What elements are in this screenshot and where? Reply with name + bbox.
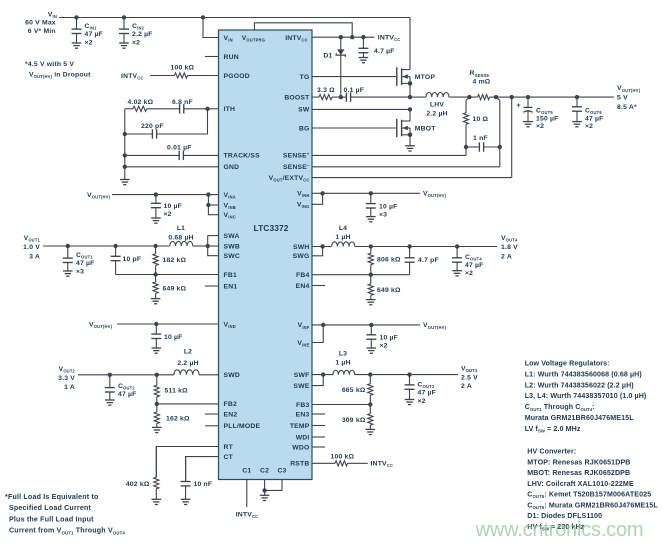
node junction VINA bracket — [206, 192, 210, 196]
resistor 100k RSTB — [335, 461, 348, 466]
svg-text:SWE: SWE — [293, 383, 309, 390]
label 649k right — [377, 287, 401, 294]
svg-text:Murata GRM21BR60J476ME15L: Murata GRM21BR60J476ME15L — [525, 414, 635, 422]
node junction loop — [350, 35, 354, 39]
svg-text:4.02 kΩ: 4.02 kΩ — [128, 99, 154, 106]
U1 left pin labels — [224, 35, 261, 461]
svg-text:FB3: FB3 — [296, 402, 309, 409]
label COUT3 — [418, 382, 437, 405]
resistor 511k — [154, 375, 159, 404]
note HV converter — [527, 448, 658, 532]
wire CT — [186, 457, 219, 482]
node junction voutext — [510, 95, 514, 99]
label 182k — [163, 257, 187, 264]
svg-text:47 µF: 47 µF — [418, 390, 437, 397]
capacitor 10nF — [181, 457, 191, 505]
svg-text:TRACK/SS: TRACK/SS — [224, 153, 261, 160]
label 100k — [171, 65, 195, 72]
label 4.7uF — [374, 48, 395, 55]
svg-text:3.3 Ω: 3.3 Ω — [317, 87, 335, 94]
label INTVCC at C1 — [236, 512, 259, 520]
resistor 402k — [152, 447, 162, 505]
wire 0.1uF to SW node — [351, 96, 410, 98]
node junction VIND cap — [154, 322, 158, 326]
wire SWE bracket — [312, 375, 323, 386]
label INTVCC right top — [378, 35, 401, 43]
svg-text:220 pF: 220 pF — [141, 123, 164, 130]
resistor 4.02k — [125, 106, 147, 111]
capacitor COUT3 — [405, 375, 415, 405]
svg-text:4 mΩ: 4 mΩ — [473, 78, 491, 85]
node junction COUT1 — [66, 244, 70, 248]
capacitor 10uF VIND — [151, 324, 161, 353]
wire R to PGOOD pin — [188, 75, 219, 77]
label 402k — [126, 481, 150, 488]
inductor L3 — [333, 370, 355, 374]
svg-text:0.1 µF: 0.1 µF — [344, 87, 365, 94]
svg-text:4.7 pF: 4.7 pF — [418, 257, 439, 264]
svg-text:CIN2: CIN2 — [132, 23, 145, 31]
wire EN2 stub — [205, 413, 219, 415]
node junction VINH bracket — [320, 191, 324, 195]
node VOUT3 label — [461, 366, 478, 391]
svg-text:10 pF: 10 pF — [123, 256, 142, 263]
svg-text:MBOT: Renesas RJK0652DPB: MBOT: Renesas RJK0652DPB — [527, 469, 630, 477]
node junction COUT2 — [108, 373, 112, 377]
svg-text:INTVCC: INTVCC — [378, 35, 401, 43]
svg-text:SWD: SWD — [224, 372, 240, 379]
wire VOUT3 rail — [355, 374, 458, 376]
node VOUTHV label at VINA — [87, 192, 111, 200]
svg-text:LHV: Coilcraft XAL1010-222ME: LHV: Coilcraft XAL1010-222ME — [527, 480, 634, 488]
wire RSTB pin — [312, 462, 335, 464]
node VOUT2 label — [58, 366, 75, 391]
resistor 665k — [368, 375, 373, 405]
node junction 1nF left — [464, 145, 468, 149]
svg-text:VOUT(HV): VOUT(HV) — [617, 85, 641, 93]
label INTVCC RSTB — [371, 461, 394, 469]
svg-text:VIN: VIN — [48, 11, 57, 19]
label RSENSE — [470, 70, 491, 85]
label COUT5 — [536, 108, 559, 131]
label 162k — [166, 416, 190, 423]
node junction 511k top — [155, 373, 159, 377]
svg-text:2 A: 2 A — [461, 383, 472, 390]
node VOUTHV label at VIND — [89, 321, 113, 329]
wire SWG bracket — [312, 247, 323, 256]
svg-text:COUT6: COUT6 — [585, 108, 602, 116]
svg-text:INTVCC: INTVCC — [371, 461, 394, 469]
svg-text:RSENSE: RSENSE — [470, 70, 490, 78]
wire SW row — [312, 108, 410, 110]
label L1 — [168, 225, 193, 241]
svg-text:ITH: ITH — [224, 106, 236, 113]
svg-text:SWB: SWB — [224, 243, 240, 250]
node VOUT4 label — [501, 235, 518, 261]
svg-text:L4: L4 — [339, 225, 347, 232]
label 3.3ohm — [317, 87, 335, 94]
inductor L1 — [170, 241, 193, 246]
node junction ITH — [205, 107, 209, 111]
capacitor COUT6 — [572, 97, 582, 127]
wire VING bracket — [312, 193, 323, 204]
svg-text:182 kΩ: 182 kΩ — [163, 257, 187, 264]
node junction 10uF VINH — [369, 191, 373, 195]
U1 top pin labels V_OUTPRG and INTV_CC — [242, 35, 308, 43]
capacitor 10pF — [111, 246, 121, 275]
node junction 10uF VINF — [369, 323, 373, 327]
inductor L2 — [174, 370, 199, 375]
label 10uF VIND — [164, 334, 183, 341]
label 511k — [165, 388, 189, 395]
svg-text:665 kΩ: 665 kΩ — [342, 387, 366, 394]
svg-text:10 µF: 10 µF — [380, 335, 399, 342]
node junction VINB bracket — [206, 203, 210, 207]
label 1nF — [473, 135, 488, 142]
label 665k — [342, 387, 366, 394]
label 10pF — [123, 256, 142, 263]
svg-text:BG: BG — [299, 125, 310, 132]
capacitor 220pF — [152, 129, 156, 138]
svg-text:*Full Load Is Equivalent to: *Full Load Is Equivalent to — [5, 493, 99, 501]
svg-text:VOUT1: VOUT1 — [24, 235, 41, 243]
svg-text:COUT5: Kemet T520B157M006ATE02: COUT5: Kemet T520B157M006ATE025 — [527, 491, 651, 500]
node junction SWF bracket — [321, 372, 325, 376]
capacitor COUT5 polarized — [523, 97, 533, 127]
node VOUTHV label VINF — [423, 322, 447, 330]
svg-text:2.2 µH: 2.2 µH — [177, 360, 198, 367]
node junction FB2 — [155, 402, 159, 406]
svg-text:SENSE–: SENSE– — [283, 163, 310, 171]
wire EN1 stub — [205, 285, 219, 287]
svg-text:0.68 µH: 0.68 µH — [168, 234, 193, 241]
wire RUN stub — [205, 56, 219, 58]
resistor 309k — [366, 405, 376, 435]
wire FB1 row — [116, 274, 219, 276]
svg-text:Low Voltage Regulators:: Low Voltage Regulators: — [525, 360, 610, 368]
node junction SW — [408, 107, 412, 111]
capacitor 10uF VINF — [366, 325, 376, 353]
wire rsense right — [490, 96, 614, 98]
svg-text:10 µF: 10 µF — [379, 203, 398, 210]
wire right branch — [496, 97, 500, 147]
capacitor 1nF — [466, 142, 500, 151]
svg-text:649 kΩ: 649 kΩ — [163, 286, 187, 293]
svg-text:VOUT(HV): VOUT(HV) — [423, 322, 447, 330]
svg-text:150 µF: 150 µF — [536, 115, 559, 122]
svg-text:VOUT(HV): VOUT(HV) — [423, 191, 447, 199]
svg-text:×2: ×2 — [585, 123, 593, 130]
wire VOUT/EXTVCC row — [312, 97, 512, 178]
svg-text:Specified Load Current: Specified Load Current — [9, 504, 91, 512]
U1 bottom pin labels C1 C2 C3 — [242, 467, 286, 474]
node junction 806k — [369, 244, 373, 248]
svg-text:3.3 V: 3.3 V — [58, 375, 75, 382]
label D1 — [323, 53, 332, 60]
resistor 10ohm — [463, 100, 468, 147]
node junction 1nF right — [498, 145, 502, 149]
svg-text:×2: ×2 — [380, 343, 388, 350]
wire INTVCC rail — [312, 36, 375, 38]
svg-text:FB2: FB2 — [224, 401, 237, 408]
wire SENSE- row — [312, 147, 500, 167]
svg-text:806 kΩ: 806 kΩ — [377, 257, 401, 264]
label COUT1 — [76, 252, 95, 275]
wire PLL/MODE stub — [205, 425, 219, 427]
svg-text:L1: Wurth 744383560068 (0.68 µ: L1: Wurth 744383560068 (0.68 µH) — [525, 370, 643, 378]
svg-text:PGOOD: PGOOD — [224, 73, 250, 80]
wire ITH left vertical — [124, 109, 126, 167]
wire INTVCC to R 100k — [150, 75, 175, 77]
label 4.02k — [128, 99, 154, 106]
inductor L4 — [332, 242, 355, 247]
svg-text:SWG: SWG — [293, 253, 310, 260]
wire VINF row — [312, 324, 420, 326]
wire SWF pin to L3 — [312, 374, 333, 376]
wire C3 to C2 — [265, 480, 282, 491]
label 4.7pF — [418, 257, 439, 264]
svg-text:100 kΩ: 100 kΩ — [171, 65, 195, 72]
svg-text:×2: ×2 — [85, 39, 93, 46]
svg-text:10 nF: 10 nF — [194, 481, 213, 488]
svg-text:649 kΩ: 649 kΩ — [377, 287, 401, 294]
label CIN1 47uF x2 — [85, 23, 104, 46]
wire C2 ground — [260, 480, 270, 501]
wire SWA-SWC bracket — [208, 236, 219, 256]
svg-text:47 µF: 47 µF — [465, 262, 484, 269]
svg-text:162 kΩ: 162 kΩ — [166, 416, 190, 423]
svg-text:COUT5: COUT5 — [536, 108, 553, 116]
svg-text:2.2 µF: 2.2 µF — [132, 31, 153, 38]
label 220pF — [141, 123, 164, 130]
svg-text:FB1: FB1 — [224, 272, 237, 279]
node junction VIN-pin — [201, 15, 205, 19]
resistor 3.3ohm BOOST — [319, 95, 332, 100]
note full load — [5, 493, 125, 535]
svg-text:COUT6: Murata GRM21BR60J476ME1: COUT6: Murata GRM21BR60J476ME15L — [527, 501, 658, 510]
svg-text:COUT3: COUT3 — [418, 382, 435, 390]
svg-text:EN2: EN2 — [224, 411, 238, 418]
capacitor CIN2 — [119, 18, 129, 49]
wire LHV to rsense — [449, 96, 478, 98]
resistor 100k PGOOD pullup — [175, 73, 188, 78]
svg-text:L3, L4: Wurth 74438357010 (1.0: L3, L4: Wurth 74438357010 (1.0 µH) — [525, 392, 647, 400]
svg-text:6.8 nF: 6.8 nF — [172, 99, 193, 106]
wire VINB bracket — [208, 195, 218, 215]
ground MBOT source — [405, 135, 415, 151]
svg-text:MTOP: MTOP — [415, 74, 436, 81]
transistor MTOP — [312, 18, 412, 86]
svg-text:GND: GND — [224, 164, 240, 171]
label plus COUT5 — [517, 103, 521, 110]
node junction trackss-left — [123, 153, 127, 157]
capacitor 0.01uF TRACK/SS — [125, 151, 219, 160]
capacitor COUT4 — [452, 247, 462, 276]
wire WDO stub — [312, 446, 325, 448]
svg-text:+: + — [517, 103, 521, 110]
svg-text:SWH: SWH — [293, 244, 309, 251]
wire ITH row — [208, 108, 219, 110]
svg-text:5 V: 5 V — [617, 95, 628, 102]
label 806k — [377, 257, 401, 264]
svg-text:CT: CT — [224, 454, 234, 461]
svg-text:RUN: RUN — [224, 54, 239, 61]
svg-text:3 A: 3 A — [29, 254, 40, 261]
capacitor CIN1 — [72, 18, 82, 49]
wire EN3 stub — [312, 413, 325, 415]
label 100k RSTB — [331, 453, 355, 460]
node junction SW-boost — [408, 95, 412, 99]
wire MBOT drain up — [409, 109, 411, 121]
svg-text:VOUT2: VOUT2 — [59, 366, 76, 374]
svg-text:1 µH: 1 µH — [335, 360, 350, 367]
svg-text:www.cntronics.com: www.cntronics.com — [475, 519, 644, 541]
svg-text:VOUT4: VOUT4 — [501, 235, 518, 243]
svg-text:×3: ×3 — [76, 268, 84, 275]
svg-text:6 V* Min: 6 V* Min — [28, 28, 56, 35]
wire RT — [156, 447, 218, 478]
label 10uF x2 VINF — [380, 335, 399, 350]
svg-text:EN1: EN1 — [224, 283, 238, 290]
node junction COUT3 — [407, 372, 411, 376]
svg-text:MBOT: MBOT — [415, 126, 436, 133]
node junction COUT4 — [455, 244, 459, 248]
svg-text:COUT1 Through COUT4:: COUT1 Through COUT4: — [525, 403, 595, 412]
label 309k — [342, 417, 366, 424]
wire EN4 stub — [312, 285, 325, 287]
wire TEMP stub — [312, 425, 325, 427]
svg-text:×2: ×2 — [132, 39, 140, 46]
svg-text:×2: ×2 — [418, 398, 426, 405]
svg-text:SWC: SWC — [224, 253, 240, 260]
svg-text:4.7 µF: 4.7 µF — [374, 48, 395, 55]
capacitor 4.7pF — [405, 247, 415, 275]
label 10uF x3 — [379, 203, 398, 218]
wire 10ohm branch — [466, 97, 469, 100]
resistor 649k — [151, 275, 161, 304]
svg-text:47 µF: 47 µF — [585, 115, 604, 122]
node junction gnd-left — [123, 165, 127, 169]
node junction 4.7pF — [407, 244, 411, 248]
svg-text:×2: ×2 — [536, 123, 544, 130]
svg-text:L1: L1 — [177, 225, 185, 232]
node VIN label — [25, 11, 57, 35]
wire C1 to INTVCC — [246, 480, 248, 508]
capacitor COUT1 — [63, 246, 73, 276]
capacitor 6.8nF — [147, 104, 208, 113]
label MTOP — [415, 74, 436, 81]
label COUT4 — [465, 254, 484, 277]
svg-text:RSTB: RSTB — [290, 461, 309, 468]
svg-text:LHV: LHV — [430, 102, 444, 109]
svg-text:309 kΩ: 309 kΩ — [342, 417, 366, 424]
svg-text:1.0 V: 1.0 V — [23, 244, 40, 251]
watermark — [475, 519, 644, 541]
U1 right pin labels — [269, 74, 311, 468]
wire 100k to INTVCC — [348, 462, 368, 464]
node junction SWB — [206, 244, 210, 248]
label L4 — [335, 225, 350, 241]
node junction D1 top — [339, 35, 343, 39]
node junction 10pF top — [113, 244, 117, 248]
svg-text:L2: Wurth 74438356022 (2.2 µH): L2: Wurth 74438356022 (2.2 µH) — [525, 381, 635, 389]
note low voltage regulators — [525, 360, 647, 434]
svg-text:LV fSW = 2.0 MHz: LV fSW = 2.0 MHz — [525, 425, 581, 434]
svg-text:PLL/MODE: PLL/MODE — [224, 423, 261, 430]
svg-text:COUT2: COUT2 — [118, 383, 135, 391]
svg-text:SW: SW — [298, 107, 310, 114]
svg-text:2.2 µH: 2.2 µH — [426, 111, 447, 118]
svg-text:0.01 µF: 0.01 µF — [167, 144, 192, 151]
svg-text:C1: C1 — [242, 467, 251, 474]
svg-text:SWA: SWA — [224, 233, 240, 240]
wire MTOP source to SW node — [409, 83, 411, 97]
inductor LHV — [426, 93, 449, 98]
svg-text:8.5 A*: 8.5 A* — [617, 104, 637, 111]
svg-text:×3: ×3 — [379, 212, 387, 219]
svg-text:100 kΩ: 100 kΩ — [331, 453, 355, 460]
label 649k — [163, 286, 187, 293]
svg-text:TG: TG — [300, 74, 310, 81]
resistor 649k right — [366, 275, 376, 305]
label COUT2 — [118, 383, 137, 398]
node VOUTHV label VINH — [423, 191, 447, 199]
wire VOUT1 rail — [43, 245, 170, 247]
wire VIND row — [117, 323, 219, 325]
label L2 — [177, 349, 198, 368]
svg-text:Current from VOUT1 Through VOU: Current from VOUT1 Through VOUT4 — [9, 527, 125, 536]
wire VINA row — [112, 194, 219, 196]
svg-text:10 µF: 10 µF — [164, 203, 183, 210]
label COUT6 — [585, 108, 604, 131]
node VOUT1 label — [23, 235, 40, 261]
svg-text:FB4: FB4 — [296, 272, 309, 279]
svg-text:60 V Max: 60 V Max — [25, 20, 56, 27]
wire FB3 row — [312, 404, 370, 406]
capacitor 10uF VINA — [151, 195, 161, 224]
resistor 162k — [152, 404, 162, 433]
svg-text:SENSE+: SENSE+ — [283, 152, 310, 160]
svg-text:VOUT(HV): VOUT(HV) — [89, 321, 113, 329]
resistor 182k — [153, 246, 158, 275]
svg-text:L3: L3 — [339, 351, 347, 358]
wire VINH row — [312, 192, 420, 194]
wire boost pin — [312, 96, 319, 98]
wire L1 to SW bracket — [193, 245, 208, 247]
node junction COUT5 — [526, 95, 530, 99]
svg-text:×2: ×2 — [164, 211, 172, 218]
label LHV — [426, 102, 447, 118]
node junction rsense right — [494, 95, 498, 99]
node junction VINA cap — [154, 192, 158, 196]
svg-text:×2: ×2 — [465, 270, 473, 277]
wire FB2 row — [157, 403, 219, 405]
svg-text:47 µF: 47 µF — [118, 391, 137, 398]
node junction 182k top — [153, 244, 157, 248]
node junction FB4 — [369, 273, 373, 277]
svg-text:RT: RT — [224, 444, 234, 451]
label CIN2 2.2uF x2 — [132, 23, 153, 46]
wire VOUTPRG loop — [254, 23, 352, 37]
label 10nF — [194, 481, 213, 488]
node junction VINF bracket — [321, 323, 325, 327]
svg-text:Plus the Full Load Input: Plus the Full Load Input — [9, 515, 94, 523]
svg-text:CIN1: CIN1 — [85, 23, 98, 31]
svg-text:C3: C3 — [277, 467, 286, 474]
svg-text:402 kΩ: 402 kΩ — [126, 481, 150, 488]
wire SENSE+ row — [312, 147, 466, 155]
svg-text:10 Ω: 10 Ω — [473, 116, 489, 123]
